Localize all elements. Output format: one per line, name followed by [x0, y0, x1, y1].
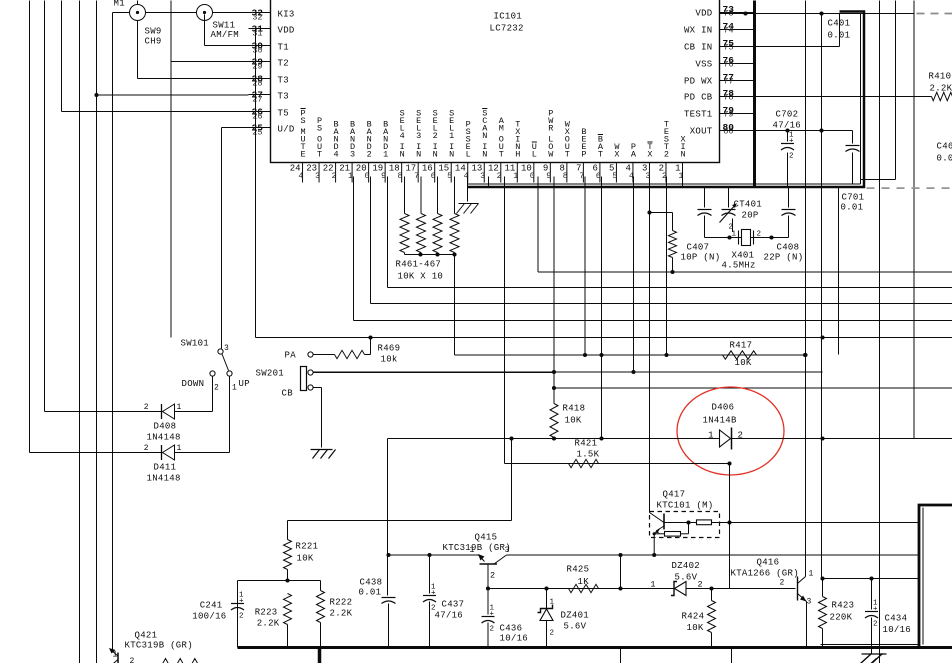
- svg-text:3: 3: [224, 344, 229, 353]
- svg-text:10/16: 10/16: [500, 634, 529, 644]
- svg-text:75: 75: [723, 43, 733, 53]
- svg-text:2: 2: [331, 171, 336, 181]
- svg-text:T3: T3: [278, 92, 289, 102]
- svg-text:KTC101 (M): KTC101 (M): [657, 501, 714, 511]
- svg-text:T1: T1: [278, 43, 289, 53]
- svg-text:1: 1: [177, 403, 182, 412]
- svg-text:E: E: [300, 150, 305, 160]
- svg-text:3: 3: [416, 131, 421, 141]
- svg-text:47/16: 47/16: [773, 121, 802, 131]
- svg-text:R423: R423: [832, 601, 855, 611]
- svg-text:T: T: [499, 150, 504, 160]
- svg-text:2: 2: [490, 571, 495, 581]
- svg-text:L: L: [466, 150, 471, 160]
- svg-text:1: 1: [732, 231, 737, 239]
- svg-text:N: N: [416, 150, 421, 160]
- svg-text:78: 78: [723, 93, 733, 103]
- svg-text:26: 26: [252, 111, 262, 121]
- svg-text:100/16: 100/16: [192, 612, 226, 622]
- svg-text:N: N: [449, 150, 454, 160]
- svg-text:T3: T3: [278, 76, 289, 86]
- svg-text:1: 1: [809, 570, 814, 579]
- svg-text:R461-467: R461-467: [396, 260, 442, 270]
- svg-text:+: +: [431, 590, 436, 598]
- svg-text:CT401: CT401: [734, 200, 763, 210]
- svg-text:LC7232: LC7232: [490, 24, 524, 34]
- svg-text:3: 3: [807, 598, 812, 607]
- svg-text:0.01: 0.01: [359, 588, 382, 598]
- svg-text:1N414B: 1N414B: [703, 416, 738, 426]
- svg-text:N: N: [400, 150, 405, 160]
- svg-text:P: P: [581, 150, 586, 160]
- svg-text:2: 2: [757, 231, 762, 239]
- svg-text:31: 31: [252, 28, 262, 38]
- svg-text:2: 2: [490, 626, 495, 634]
- svg-text:1: 1: [513, 171, 518, 181]
- svg-text:10K X 10: 10K X 10: [398, 272, 444, 282]
- svg-text:PA: PA: [285, 351, 297, 361]
- svg-text:PD WX: PD WX: [684, 77, 713, 87]
- svg-text:5: 5: [447, 171, 452, 181]
- svg-text:27: 27: [252, 94, 262, 104]
- svg-text:C701: C701: [842, 193, 865, 203]
- svg-text:KI3: KI3: [278, 10, 295, 20]
- svg-text:+: +: [239, 598, 244, 606]
- svg-text:2: 2: [698, 580, 703, 590]
- svg-text:CB: CB: [282, 389, 294, 399]
- svg-text:80: 80: [723, 127, 733, 137]
- svg-text:SW11: SW11: [213, 21, 236, 31]
- svg-text:CH9: CH9: [145, 37, 162, 47]
- svg-text:2: 2: [789, 153, 794, 161]
- svg-text:UP: UP: [239, 379, 250, 389]
- svg-text:R424: R424: [682, 612, 705, 622]
- svg-text:N: N: [482, 131, 487, 141]
- svg-text:R: R: [548, 124, 553, 134]
- svg-text:T2: T2: [278, 59, 289, 69]
- svg-text:4: 4: [334, 150, 339, 160]
- svg-text:220K: 220K: [830, 613, 853, 623]
- svg-text:4: 4: [298, 171, 303, 181]
- svg-text:5.6V: 5.6V: [564, 622, 587, 632]
- svg-text:R418: R418: [563, 404, 586, 414]
- svg-text:+: +: [789, 138, 794, 146]
- svg-text:2: 2: [738, 431, 743, 441]
- svg-text:9: 9: [546, 171, 551, 181]
- svg-text:PD CB: PD CB: [684, 93, 713, 103]
- svg-text:KTA1266 (GR): KTA1266 (GR): [731, 569, 799, 579]
- svg-text:10K: 10K: [565, 416, 582, 426]
- svg-text:10K: 10K: [687, 623, 704, 633]
- svg-text:2: 2: [130, 657, 135, 663]
- svg-text:20P: 20P: [742, 211, 759, 221]
- svg-text:S: S: [317, 124, 322, 134]
- svg-text:1: 1: [550, 599, 555, 607]
- svg-text:10/16: 10/16: [883, 625, 912, 635]
- svg-text:79: 79: [723, 110, 733, 120]
- svg-text:2: 2: [144, 444, 149, 453]
- svg-text:10K: 10K: [297, 554, 314, 564]
- svg-text:C408: C408: [777, 243, 800, 253]
- svg-text:R223: R223: [255, 608, 278, 618]
- svg-text:2: 2: [433, 131, 438, 141]
- svg-text:1N4148: 1N4148: [147, 433, 181, 443]
- svg-text:XOUT: XOUT: [690, 127, 713, 137]
- svg-text:30: 30: [252, 45, 262, 55]
- svg-text:0: 0: [365, 171, 370, 181]
- svg-text:VSS: VSS: [695, 60, 712, 70]
- svg-text:IC101: IC101: [494, 12, 523, 22]
- svg-text:N: N: [433, 150, 438, 160]
- svg-text:R410: R410: [929, 72, 952, 82]
- svg-text:SW201: SW201: [256, 369, 285, 379]
- svg-text:R417: R417: [730, 341, 753, 351]
- svg-text:DOWN: DOWN: [182, 379, 205, 389]
- svg-text:8: 8: [563, 171, 568, 181]
- svg-text:X: X: [647, 150, 652, 160]
- svg-text:2: 2: [873, 621, 878, 629]
- svg-text:1: 1: [232, 384, 237, 393]
- svg-text:29: 29: [252, 61, 262, 71]
- svg-text:8: 8: [398, 171, 403, 181]
- svg-text:+: +: [873, 606, 878, 614]
- svg-text:2.2K: 2.2K: [257, 619, 280, 629]
- svg-text:74: 74: [723, 26, 733, 36]
- svg-text:28: 28: [252, 78, 262, 88]
- svg-text:L: L: [532, 150, 537, 160]
- svg-text:D411: D411: [154, 463, 177, 473]
- svg-text:T: T: [317, 150, 322, 160]
- svg-text:1: 1: [177, 444, 182, 453]
- svg-text:C401: C401: [828, 19, 851, 29]
- svg-text:7: 7: [414, 171, 419, 181]
- svg-text:1: 1: [708, 431, 713, 441]
- svg-text:3: 3: [505, 545, 510, 555]
- svg-text:DZ401: DZ401: [561, 611, 590, 621]
- svg-text:32: 32: [252, 12, 262, 22]
- svg-text:9: 9: [381, 171, 386, 181]
- svg-text:SW9: SW9: [145, 27, 162, 37]
- svg-text:4: 4: [400, 131, 405, 141]
- svg-text:2: 2: [497, 171, 502, 181]
- svg-text:C434: C434: [885, 614, 908, 624]
- svg-text:R221: R221: [296, 542, 319, 552]
- svg-text:C702: C702: [776, 110, 799, 120]
- svg-text:VDD: VDD: [278, 26, 295, 36]
- svg-text:CB IN: CB IN: [684, 43, 713, 53]
- svg-text:M: M: [499, 124, 504, 134]
- svg-text:Q416: Q416: [757, 558, 780, 568]
- svg-text:0.0: 0.0: [937, 154, 952, 164]
- svg-text:1: 1: [383, 150, 388, 160]
- svg-text:C407: C407: [687, 243, 710, 253]
- svg-text:1N4148: 1N4148: [147, 474, 181, 484]
- svg-text:2: 2: [144, 403, 149, 412]
- svg-text:6: 6: [431, 171, 436, 181]
- svg-text:T: T: [598, 150, 603, 160]
- svg-text:0.01: 0.01: [828, 31, 851, 41]
- svg-text:Q417: Q417: [663, 490, 686, 500]
- svg-text:KTC319B (GR): KTC319B (GR): [125, 641, 193, 651]
- svg-text:7: 7: [579, 171, 584, 181]
- svg-text:4.5MHz: 4.5MHz: [722, 261, 756, 271]
- svg-text:2: 2: [780, 579, 785, 588]
- svg-text:2: 2: [367, 150, 372, 160]
- svg-text:2: 2: [664, 150, 669, 160]
- svg-text:Q415: Q415: [475, 533, 498, 543]
- svg-text:1.5K: 1.5K: [577, 450, 600, 460]
- svg-text:1K: 1K: [578, 577, 590, 587]
- svg-text:47/16: 47/16: [435, 611, 464, 621]
- svg-text:77: 77: [723, 77, 733, 87]
- svg-text:10P (N): 10P (N): [681, 253, 721, 263]
- svg-text:+: +: [490, 611, 495, 619]
- svg-text:5: 5: [612, 171, 617, 181]
- svg-text:W: W: [548, 150, 554, 160]
- svg-text:2.2K: 2.2K: [930, 84, 952, 94]
- svg-text:3: 3: [480, 171, 485, 181]
- svg-text:22P (N): 22P (N): [764, 253, 804, 263]
- svg-text:1: 1: [650, 580, 655, 590]
- svg-text:D408: D408: [154, 422, 177, 432]
- svg-text:3: 3: [350, 150, 355, 160]
- svg-text:10K: 10K: [735, 358, 752, 368]
- svg-text:1: 1: [469, 545, 474, 555]
- svg-text:25: 25: [252, 127, 262, 137]
- svg-text:R469: R469: [378, 344, 401, 354]
- svg-text:0: 0: [530, 171, 535, 181]
- svg-text:DZ402: DZ402: [672, 561, 701, 571]
- svg-text:D406: D406: [712, 403, 735, 413]
- svg-text:10k: 10k: [381, 355, 398, 365]
- svg-text:3: 3: [315, 171, 320, 181]
- svg-text:76: 76: [723, 60, 733, 70]
- svg-text:U/D: U/D: [278, 125, 295, 135]
- svg-text:0.01: 0.01: [841, 203, 864, 213]
- svg-text:2: 2: [550, 630, 555, 638]
- svg-text:WX IN: WX IN: [684, 26, 713, 36]
- svg-text:AM/FM: AM/FM: [211, 30, 240, 40]
- svg-text:R421: R421: [575, 439, 598, 449]
- svg-text:2: 2: [239, 613, 244, 621]
- svg-text:C436: C436: [500, 624, 523, 634]
- svg-text:N: N: [482, 150, 487, 160]
- svg-text:R222: R222: [330, 598, 353, 608]
- svg-text:T5: T5: [278, 109, 289, 119]
- svg-text:R425: R425: [567, 565, 590, 575]
- svg-text:KTC319B (GR): KTC319B (GR): [443, 543, 511, 553]
- svg-text:2.2K: 2.2K: [330, 609, 353, 619]
- svg-text:SW101: SW101: [181, 339, 210, 349]
- svg-text:C46: C46: [937, 142, 952, 152]
- svg-text:Q421: Q421: [135, 631, 158, 641]
- svg-text:TEST1: TEST1: [684, 110, 713, 120]
- svg-text:1: 1: [348, 171, 353, 181]
- svg-text:C437: C437: [442, 600, 465, 610]
- svg-text:X401: X401: [732, 251, 755, 261]
- svg-text:C438: C438: [360, 578, 383, 588]
- svg-text:N: N: [680, 150, 685, 160]
- svg-text:VDD: VDD: [695, 9, 712, 19]
- svg-text:1: 1: [449, 131, 454, 141]
- svg-text:X: X: [614, 150, 619, 160]
- svg-text:M1: M1: [114, 0, 125, 9]
- svg-text:6: 6: [596, 171, 601, 181]
- svg-text:C241: C241: [200, 601, 223, 611]
- svg-text:S: S: [300, 116, 305, 126]
- svg-text:2: 2: [214, 384, 219, 393]
- svg-text:T: T: [565, 150, 570, 160]
- svg-text:H: H: [515, 150, 520, 160]
- svg-text:A: A: [631, 150, 637, 160]
